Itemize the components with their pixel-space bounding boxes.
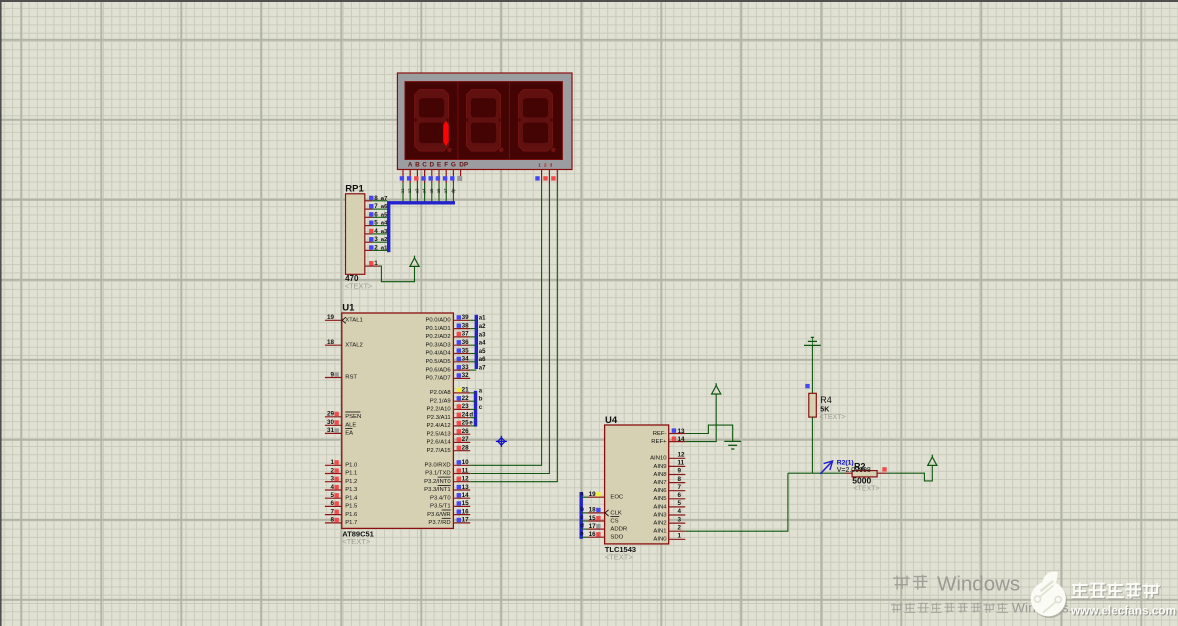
- wire divider node to potentiometer: [788, 472, 845, 474]
- connection square at R4 top: [805, 384, 809, 388]
- resistor R4 body: [809, 393, 817, 417]
- power terminal near RP1: [410, 256, 419, 267]
- display digit-select pin numbers 1 2 3: [538, 163, 553, 168]
- svg-text:Windows: Windows: [937, 573, 1020, 596]
- wire and net label e P2.4 to bus: [469, 421, 475, 427]
- potentiometer R2 body and stubs: [845, 471, 887, 477]
- wire U1 P3.1 to display digit pin: [470, 183, 549, 474]
- wire display segment pin a1 to bus: [400, 183, 405, 202]
- power terminal right of R2: [928, 455, 937, 466]
- U4 left bus: [580, 492, 583, 539]
- ground symbol near U4: [724, 441, 741, 449]
- svg-text:www.elecfans.com: www.elecfans.com: [1070, 604, 1176, 618]
- wire display segment pin a7 to bus: [443, 183, 448, 202]
- voltage probe R2(1): [820, 461, 832, 474]
- wire display segment pin a4 to bus: [422, 183, 427, 202]
- ground symbol above R4 (inverted): [804, 337, 821, 345]
- wire and net label a3 P0.2 to bus: [470, 332, 486, 338]
- wire display segment pin a6 to bus: [436, 183, 441, 202]
- elecfans logo text 电子发烧友: [1071, 582, 1161, 599]
- wire display segment pin a2 to bus: [407, 183, 412, 202]
- elecfans logo url: [1070, 604, 1177, 619]
- elecfans logo mark: [1031, 571, 1067, 618]
- wire R4 to divider node: [811, 417, 813, 473]
- editor crosshair cursor: [496, 436, 507, 447]
- U4 right pins: stubs, numbers, names: [650, 428, 685, 543]
- wire U4 AIN1 to divider node: [685, 473, 788, 531]
- U4 left pins: stubs, numbers, squares, names: [588, 491, 627, 541]
- P2 vertical bus: [474, 391, 477, 427]
- wire and net label a P2.0 to bus: [470, 388, 483, 394]
- display digit 1 (segment C lit): [415, 90, 452, 153]
- wire R2 to power: [887, 466, 933, 481]
- vertical segment bus at RP1: [387, 201, 390, 252]
- wire display segment pin dp to bus: [450, 183, 455, 202]
- wire and net label e U4 SDO to bus: [580, 531, 588, 537]
- wire and net label a2 P0.1 to bus: [470, 324, 486, 330]
- sheet border left edge: [0, 0, 2, 626]
- wire and net label a5 P0.4 to bus: [470, 349, 486, 355]
- display digit 2: [467, 90, 504, 153]
- sheet border top edge: [0, 0, 1178, 2]
- 7-segment display module body: [397, 73, 572, 170]
- U1 left pins: stubs, numbers, squares, names: [325, 314, 363, 526]
- power terminal above U4: [712, 383, 721, 394]
- display digit-select pins (stubs and squares): [535, 170, 557, 184]
- wire and net label a4 P0.3 to bus: [470, 341, 486, 347]
- watermark: activate windows line 2: [891, 600, 1072, 616]
- wire ground to R4: [811, 345, 813, 393]
- wire and net label b P2.1 to bus: [470, 397, 483, 403]
- wire and net label a6 P0.5 to bus: [470, 357, 486, 363]
- display pin labels ABCDEFG DP: [408, 161, 469, 168]
- wire U4 REF- to ground: [685, 425, 732, 441]
- RP1 pin 1: [365, 260, 380, 267]
- display digit 3: [519, 90, 556, 153]
- resistor pack RP1 body: [345, 184, 365, 275]
- wire and net label c P2.2 to bus: [470, 405, 483, 411]
- wire display segment pin a5 to bus: [429, 183, 434, 202]
- wire and net label a U4 EOC to bus: [580, 491, 588, 497]
- connection square right of R2: [882, 467, 886, 471]
- U1 right pins P0/P2/P3: stubs, squares, numbers, names: [424, 314, 470, 526]
- wire U1 P3.2 to display digit pin: [470, 183, 557, 482]
- RP1 pins 8..2 with net wires to bus: [365, 195, 388, 252]
- wire and net label d U4 ADDR to bus: [580, 523, 588, 529]
- wire and net label a7 P0.6 to bus: [470, 366, 486, 372]
- wire and net label d P2.3 to bus: [469, 413, 475, 419]
- horizontal segment bus: [389, 201, 455, 204]
- watermark: activate windows line 1: [893, 573, 1020, 596]
- wire U1 P3.0 to display digit pin: [470, 183, 541, 465]
- P0 vertical bus: [475, 315, 478, 369]
- op U1 AT89C51 microcontroller body: [342, 303, 454, 529]
- wire U4 REF+ to power: [685, 394, 716, 441]
- wire display segment pin a3 to bus: [414, 183, 419, 202]
- display segment pins (stubs and connection squares): [400, 170, 463, 184]
- wire and net label a1 P0.0 to bus: [470, 316, 486, 322]
- wire and net label c U4 CS to bus: [580, 515, 588, 521]
- adc U4 TLC1543 body: [605, 415, 669, 544]
- wire RP1 pin1 to power: [380, 266, 414, 282]
- wire and net label b U4 CLK to bus: [580, 507, 588, 513]
